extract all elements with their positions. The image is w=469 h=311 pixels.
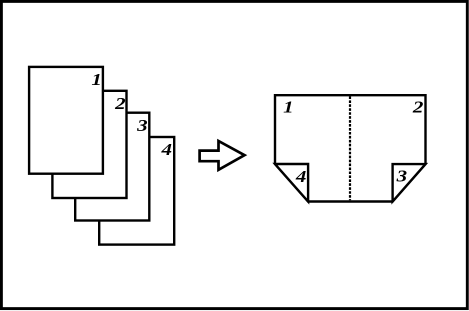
svg-text:2: 2	[114, 94, 126, 113]
svg-text:3: 3	[395, 167, 407, 186]
svg-text:3: 3	[136, 116, 148, 135]
svg-text:4: 4	[295, 167, 307, 186]
svg-text:1: 1	[91, 70, 102, 89]
svg-text:4: 4	[160, 140, 172, 159]
svg-text:2: 2	[412, 98, 424, 117]
svg-text:1: 1	[283, 98, 294, 117]
